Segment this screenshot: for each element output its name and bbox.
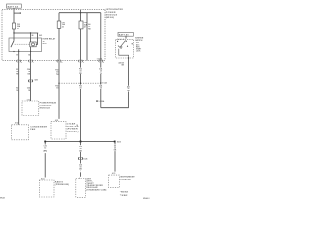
- fuse F2: [57, 21, 65, 28]
- horn relay box U1: [9, 38, 42, 52]
- svg-text:SWITCH: SWITCH: [135, 40, 143, 42]
- wire ignition run down: [128, 58, 130, 86]
- svg-text:(BR): (BR): [43, 151, 47, 153]
- svg-text:2 C1: 2 C1: [27, 99, 30, 101]
- svg-text:OFF: OFF: [136, 42, 139, 44]
- wire coil drop: [30, 33, 32, 38]
- cigar lighter box: [51, 122, 66, 139]
- wire code interrupt on ignition wire: [127, 85, 130, 92]
- svg-text:18: 18: [16, 90, 18, 92]
- node splice stub with dot: [14, 12, 20, 14]
- svg-text:** W/ BUX: ** W/ BUX: [120, 195, 128, 197]
- svg-text:85 87: 85 87: [43, 43, 47, 45]
- label horn relay: [43, 38, 56, 46]
- svg-text:5 C20A: 5 C20A: [99, 100, 106, 103]
- wire anti-theft drop: [80, 142, 82, 177]
- radio box: [39, 180, 54, 197]
- node relay top bus: [14, 32, 38, 34]
- connector bubbles at IPM bottom: [17, 60, 103, 62]
- svg-text:18: 18: [56, 88, 58, 90]
- wire battery feed down: [13, 8, 15, 23]
- wire relay pin 87 down: [18, 52, 20, 125]
- svg-text:18: 18: [80, 88, 82, 90]
- svg-text:BATT A0: BATT A0: [119, 33, 130, 36]
- svg-text:S201: S201: [35, 79, 39, 81]
- wire radio drop: [44, 142, 46, 178]
- wire fuse2 down: [58, 28, 60, 119]
- svg-text:18: 18: [28, 90, 30, 92]
- wire instrument cluster drop: [114, 142, 116, 172]
- svg-text:C126: C126: [83, 159, 87, 161]
- wire ignition elbow to IPM: [101, 92, 129, 108]
- ignition switch label: [135, 38, 144, 53]
- svg-text:MODULE: MODULE: [40, 108, 51, 110]
- wire relay pin 85 down: [30, 52, 32, 102]
- inline connector on wire2: [29, 80, 33, 82]
- svg-text:(8W-10-8): (8W-10-8): [106, 17, 114, 19]
- ignition switch dashed box: [116, 36, 134, 59]
- integrated power module label: [106, 8, 124, 19]
- condenser fan box: [12, 125, 29, 140]
- wire code labels column3: [55, 69, 59, 89]
- svg-text:* W/O BUX: * W/O BUX: [120, 192, 129, 194]
- anti-theft transceiver box: [76, 179, 86, 198]
- splice S201 dashed run: [58, 83, 59, 84]
- bus splice line S210: [45, 141, 115, 143]
- svg-text:86: 86: [32, 35, 34, 37]
- integrated power module dashed boundary: [2, 9, 105, 60]
- wire code labels column4: [78, 68, 84, 75]
- svg-text:(STANDARD CAB): (STANDARD CAB): [86, 188, 106, 191]
- wire code labels column5: [98, 68, 104, 75]
- svg-text:18: 18: [128, 88, 130, 90]
- battery feed label box BATT A0 top left: [7, 4, 22, 8]
- svg-text:BATT A0: BATT A0: [8, 5, 19, 8]
- fuse tap note: [96, 100, 97, 101]
- wire fuse3 down: [80, 29, 82, 142]
- battery feed label box BATT A0 (ignition): [118, 32, 133, 36]
- svg-text:87: 87: [16, 54, 18, 56]
- instrument cluster box: [109, 175, 120, 188]
- fuse F1: [12, 23, 20, 30]
- svg-text:18: 18: [76, 125, 78, 127]
- svg-text:S210: S210: [117, 141, 121, 143]
- svg-text:23: 23: [62, 26, 64, 28]
- svg-text:31: 31: [17, 28, 19, 30]
- powertrain control module box: [22, 101, 39, 116]
- svg-text:INTEGRATED: INTEGRATED: [106, 8, 124, 11]
- internal wire code: [88, 23, 91, 30]
- inline connector C126: [78, 157, 82, 159]
- feed bus to fuses 2,3: [59, 12, 101, 14]
- wire fuse1 to relay bus: [13, 29, 15, 38]
- svg-text:12: 12: [44, 148, 46, 150]
- fuse F3: [80, 13, 82, 21]
- svg-text:OUTLET): OUTLET): [67, 131, 79, 133]
- svg-text:YL: YL: [100, 73, 102, 75]
- svg-text:FAN: FAN: [30, 128, 35, 131]
- svg-text:HORN RELAY: HORN RELAY: [43, 38, 56, 41]
- svg-text:22: 22: [84, 27, 86, 29]
- wire code labels column1: [16, 69, 19, 92]
- wire code labels column2: [27, 68, 31, 92]
- svg-text:(PREMIUM): (PREMIUM): [55, 184, 70, 186]
- internal feed wires right side: [86, 13, 88, 61]
- svg-text:CLUSTER: CLUSTER: [120, 179, 131, 181]
- wire pin drop: [37, 33, 39, 38]
- svg-text:30: 30: [43, 41, 45, 43]
- svg-text:14: 14: [100, 87, 102, 90]
- svg-text:85: 85: [28, 54, 30, 56]
